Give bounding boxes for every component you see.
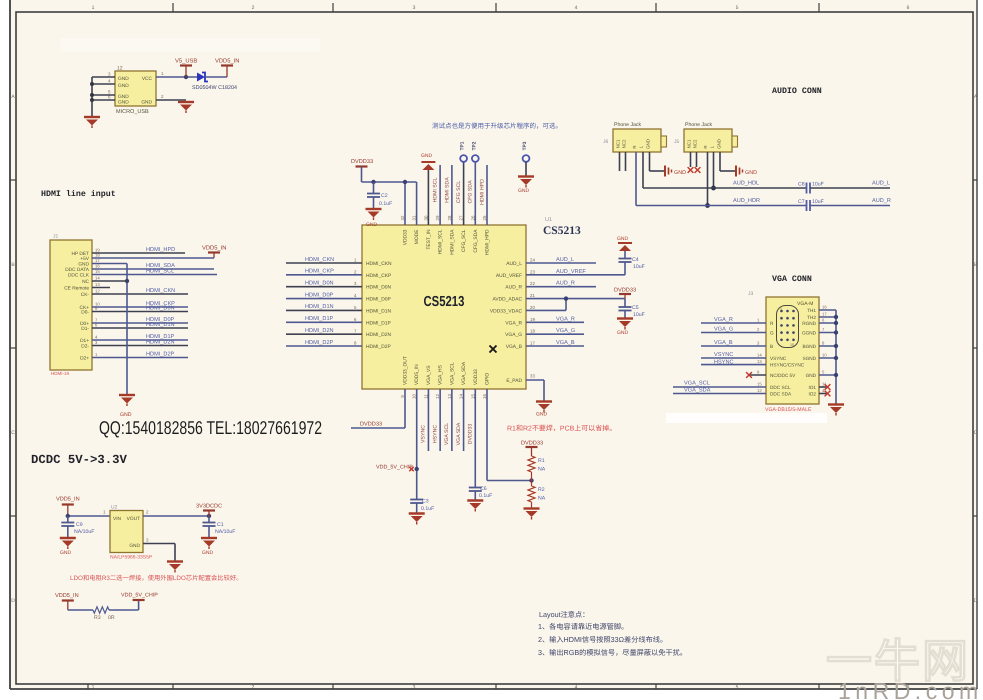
svg-text:J1: J1	[53, 234, 59, 240]
svg-text:GND: GND	[717, 139, 722, 149]
svg-text:15: 15	[790, 343, 794, 347]
wire net VGA_SDA	[673, 388, 766, 394]
svg-text:GPIO: GPIO	[484, 373, 490, 385]
text note LDO	[70, 574, 242, 582]
svg-text:CFG_SCL: CFG_SCL	[461, 229, 467, 252]
svg-text:D1+: D1+	[80, 338, 89, 344]
svg-text:VDD33: VDD33	[473, 369, 479, 385]
wire net HDMI_D0N to pin 3	[286, 281, 362, 287]
wire net HDMI_D1P to pin 6	[286, 316, 362, 322]
svg-text:19: 19	[530, 317, 535, 322]
ground	[409, 514, 425, 525]
svg-text:GND: GND	[617, 236, 629, 242]
svg-text:U2: U2	[111, 505, 118, 511]
svg-text:DVDD33: DVDD33	[467, 424, 473, 445]
svg-text:GND: GND	[141, 100, 152, 106]
wire DVDD33 rail to pins 32,31	[362, 167, 417, 226]
power port 3V3DCDC	[196, 504, 222, 517]
svg-text:VGA_B: VGA_B	[714, 340, 733, 346]
wire net VGA SDA pin 14	[456, 389, 464, 451]
svg-text:HSYNC: HSYNC	[432, 425, 438, 443]
svg-text:DVDD33: DVDD33	[351, 159, 373, 165]
svg-text:G: G	[770, 331, 774, 336]
svg-text:GND: GND	[536, 412, 548, 418]
svg-text:GND: GND	[366, 222, 378, 228]
svg-text:C7: C7	[798, 199, 805, 205]
test point TP3	[518, 141, 534, 194]
svg-text:HDMI_CKN: HDMI_CKN	[146, 288, 175, 294]
capacitor C2 0.1uF	[367, 182, 392, 209]
svg-text:HDMI HPD: HDMI HPD	[479, 179, 485, 205]
connector J6 Phone Jack	[603, 122, 667, 152]
wire net VGA_B	[526, 340, 584, 346]
wire net HSYNC	[701, 359, 766, 365]
red X on NC pin 9	[746, 372, 766, 378]
svg-text:2、输入HDMI信号按照33Ω差分线布线。: 2、输入HDMI信号按照33Ω差分线布线。	[538, 635, 667, 644]
svg-text:AUD_VREF: AUD_VREF	[556, 269, 586, 275]
svg-text:NA/LP5966-33S5P: NA/LP5966-33S5P	[110, 555, 153, 561]
text QQ TEL contact	[99, 418, 322, 439]
svg-text:VDD5_IN: VDD5_IN	[56, 497, 80, 503]
svg-text:C3: C3	[422, 499, 429, 505]
wire GPIO pin 16 to divider	[487, 389, 534, 483]
wire diode to VDD5_IN	[205, 76, 227, 78]
svg-text:D1-: D1-	[81, 326, 89, 332]
text note R1 R2	[507, 425, 616, 433]
wire net AUD_L	[810, 181, 890, 189]
wire net VSYNC pin 11	[421, 389, 429, 451]
svg-text:HDMI_D0N: HDMI_D0N	[366, 285, 391, 291]
svg-text:HDMI_D1P: HDMI_D1P	[305, 316, 334, 322]
wire net VSYNC	[701, 352, 766, 358]
power port VDD_5V_CHIP	[121, 593, 158, 601]
wire net VGA_R	[526, 316, 584, 322]
svg-text:17: 17	[822, 312, 827, 317]
svg-text:HDMI_HPD: HDMI_HPD	[484, 229, 490, 255]
svg-text:AUDIO CONN: AUDIO CONN	[772, 87, 822, 96]
svg-text:HDMI_D1N: HDMI_D1N	[366, 308, 391, 314]
svg-text:DDC DATA: DDC DATA	[65, 267, 90, 273]
wire micro-usb GND pin 2	[156, 94, 186, 100]
svg-text:AUD_L: AUD_L	[872, 181, 890, 187]
svg-text:18: 18	[530, 329, 535, 334]
label U1 CS5213	[543, 217, 581, 237]
wire jack J6 NC stubs	[620, 152, 626, 171]
svg-text:+5V: +5V	[80, 256, 89, 262]
power port VDD5_IN	[202, 246, 226, 259]
capacitor C9 NA/10uF	[61, 516, 94, 538]
resistor R3 0R	[93, 607, 115, 621]
svg-text:5: 5	[736, 685, 739, 691]
svg-text:VDD5_IN: VDD5_IN	[55, 593, 79, 599]
svg-text:HDMI-19: HDMI-19	[51, 371, 69, 376]
power port DVDD33	[351, 159, 373, 167]
title VGA CONN	[772, 275, 812, 284]
svg-text:AUD_L: AUD_L	[506, 261, 522, 267]
svg-text:J6: J6	[603, 139, 609, 145]
svg-text:VGA SDA: VGA SDA	[456, 422, 462, 445]
svg-text:NA: NA	[538, 467, 546, 473]
ground	[366, 209, 382, 228]
svg-text:GND: GND	[118, 100, 129, 106]
svg-text:HDMI_D1N: HDMI_D1N	[305, 304, 334, 310]
svg-text:RGND: RGND	[802, 321, 816, 326]
regulator U2 LDO	[110, 505, 153, 561]
ground	[524, 509, 540, 520]
svg-text:VDD5_IN: VDD5_IN	[414, 364, 420, 385]
wire net HDMI_CKP to pin 2	[286, 269, 362, 275]
svg-text:LDO和电阻R3二选一焊接，使用外围LDO芯片配置会比较好。: LDO和电阻R3二选一焊接，使用外围LDO芯片配置会比较好。	[70, 574, 242, 582]
svg-text:VGA-M: VGA-M	[797, 301, 813, 307]
svg-text:Layout注意点：: Layout注意点：	[539, 610, 589, 619]
svg-text:CS5213: CS5213	[543, 225, 581, 237]
title DCDC 5V to 3.3V	[31, 453, 128, 467]
svg-text:0.1uF: 0.1uF	[379, 201, 392, 207]
svg-text:HDMI line input: HDMI line input	[41, 189, 116, 199]
svg-text:GND: GND	[129, 543, 140, 549]
svg-text:AUD_R: AUD_R	[556, 281, 575, 287]
svg-text:VOUT: VOUT	[127, 516, 140, 522]
svg-text:HDMI_CKP: HDMI_CKP	[366, 273, 391, 279]
wire VDD33 pin 15 to C6	[467, 389, 475, 487]
svg-text:17: 17	[530, 340, 535, 345]
svg-text:AUD_HDL: AUD_HDL	[733, 181, 759, 187]
svg-text:D2+: D2+	[80, 356, 89, 362]
wire jack J5 GND	[720, 152, 735, 171]
svg-text:C1: C1	[217, 522, 224, 528]
op-amp U1 CS5213 converter IC	[354, 215, 535, 399]
svg-text:HDMI_HPD: HDMI_HPD	[146, 247, 175, 253]
wire net HSYNC pin 12	[432, 389, 440, 451]
wire net HDMI_CKN to pin 1	[286, 257, 362, 263]
svg-text:3、输出RGB的模拟信号，尽量屏蔽以免干扰。: 3、输出RGB的模拟信号，尽量屏蔽以免干扰。	[538, 648, 687, 657]
svg-text:HDMI_D2P: HDMI_D2P	[146, 352, 175, 358]
wire jack J5 R	[705, 152, 710, 208]
svg-text:13: 13	[757, 359, 762, 364]
svg-text:NA/10uF: NA/10uF	[74, 529, 94, 535]
wire CE Remote stub	[92, 287, 110, 289]
svg-text:2: 2	[252, 685, 255, 691]
svg-text:10uF: 10uF	[812, 199, 824, 205]
wire jack J5 L	[711, 152, 716, 190]
wire R3 to VDD_5V_CHIP	[109, 600, 139, 610]
power port VDD5_IN	[56, 497, 80, 517]
svg-text:VCC: VCC	[142, 76, 153, 82]
svg-text:14: 14	[757, 353, 762, 358]
svg-text:VGA_SCL: VGA_SCL	[449, 362, 455, 385]
svg-text:C4: C4	[632, 257, 639, 263]
svg-text:3V3DCDC: 3V3DCDC	[196, 504, 222, 510]
wire net HDMI_D0P	[92, 317, 188, 323]
svg-text:HDMI_SCL: HDMI_SCL	[438, 229, 444, 254]
svg-text:GND: GND	[421, 153, 433, 159]
svg-text:B: B	[770, 344, 773, 349]
svg-text:VDD33: VDD33	[403, 229, 409, 245]
svg-text:HDMI_D0P: HDMI_D0P	[366, 297, 391, 303]
svg-text:R2: R2	[538, 487, 545, 493]
svg-text:TH1: TH1	[807, 308, 816, 313]
svg-text:10uF: 10uF	[633, 312, 645, 318]
svg-text:1nRD.com: 1nRD.com	[838, 678, 983, 700]
svg-text:GND: GND	[118, 94, 129, 100]
svg-text:VSYNC: VSYNC	[770, 356, 787, 361]
svg-text:10uF: 10uF	[812, 182, 824, 188]
svg-text:D2-: D2-	[81, 344, 89, 350]
svg-text:VSYNC: VSYNC	[714, 352, 733, 358]
svg-text:24: 24	[530, 258, 535, 263]
svg-text:R1和R2不要焊，PCB上可以省掉。: R1和R2不要焊，PCB上可以省掉。	[507, 425, 616, 433]
connector J7 MICRO_USB	[115, 66, 156, 116]
red X marks on J5 NC pins	[688, 152, 701, 173]
wire net VGA_SCL	[673, 381, 766, 388]
svg-text:NC1: NC1	[687, 139, 692, 148]
wire net HDMI_D0P to pin 4	[286, 292, 362, 298]
svg-text:VGA-DB15/S-MALE: VGA-DB15/S-MALE	[765, 407, 812, 413]
svg-text:HDMI_D2N: HDMI_D2N	[366, 332, 391, 338]
svg-text:VGA_R: VGA_R	[556, 316, 575, 322]
svg-text:SGND: SGND	[802, 356, 816, 361]
svg-text:R1: R1	[538, 458, 545, 464]
svg-text:VDD33_OUT: VDD33_OUT	[403, 356, 409, 385]
svg-text:HDMI_CKP: HDMI_CKP	[305, 269, 334, 275]
wire net HDMI_D2N	[92, 340, 188, 346]
svg-text:VGA_SDA: VGA_SDA	[684, 388, 711, 394]
svg-text:22: 22	[530, 281, 535, 286]
svg-text:HDMI_D0P: HDMI_D0P	[305, 292, 334, 298]
svg-text:VGA_G: VGA_G	[556, 328, 575, 334]
capacitor C7 10uF	[798, 199, 824, 211]
wire net AUD_R	[810, 198, 891, 206]
svg-text:16: 16	[822, 305, 827, 310]
svg-text:R3: R3	[94, 615, 101, 621]
svg-text:TP1: TP1	[460, 141, 466, 150]
svg-text:21: 21	[530, 293, 535, 298]
svg-text:HDMI_D0N: HDMI_D0N	[146, 306, 175, 312]
svg-text:VGA_R: VGA_R	[505, 320, 522, 326]
svg-text:R: R	[703, 145, 708, 148]
svg-text:E_PAD: E_PAD	[506, 378, 522, 384]
svg-text:R: R	[632, 145, 637, 148]
wire +5V to VDD5_IN	[92, 257, 214, 259]
svg-text:D: D	[11, 598, 15, 604]
wire net AUD_L pin 24	[526, 257, 596, 263]
ground	[60, 538, 76, 556]
svg-text:HDMI_D1N: HDMI_D1N	[146, 322, 175, 328]
svg-text:Phone Jack: Phone Jack	[685, 122, 713, 128]
svg-text:4: 4	[575, 5, 578, 11]
svg-text:GND: GND	[78, 262, 89, 268]
capacitor C8 10uF	[798, 182, 824, 194]
svg-text:DVDD33: DVDD33	[521, 441, 543, 447]
wire jack J6 L to AUD_HDL	[642, 152, 644, 188]
svg-text:QQ:1540182856 TEL:18027661972: QQ:1540182856 TEL:18027661972	[99, 418, 322, 439]
wire net VGA_G	[526, 328, 584, 334]
wire VCC out	[156, 71, 197, 79]
ground	[178, 102, 194, 113]
svg-text:5: 5	[736, 5, 739, 11]
svg-text:AUD_L: AUD_L	[556, 257, 574, 263]
svg-text:VDD_5V_CHIP: VDD_5V_CHIP	[121, 593, 158, 599]
svg-text:HDMI_D2N: HDMI_D2N	[146, 340, 175, 346]
svg-text:MICRO_USB: MICRO_USB	[116, 109, 149, 115]
svg-text:Phone Jack: Phone Jack	[614, 122, 642, 128]
white band artifact	[60, 38, 320, 52]
svg-text:HDMI SCL: HDMI SCL	[433, 177, 439, 202]
title HDMI line input	[41, 189, 116, 199]
wire NC pin14	[92, 280, 127, 282]
wire net HDMI_CKP	[92, 301, 188, 307]
wire net VGA_G	[701, 326, 766, 332]
svg-text:C5: C5	[632, 305, 639, 311]
wire jack J6 GND	[650, 152, 665, 171]
capacitor C3 0.1uF	[410, 499, 434, 514]
wire net HDMI_SCL	[92, 269, 217, 275]
svg-text:HDMI_D2N: HDMI_D2N	[305, 328, 334, 334]
svg-text:C9: C9	[76, 522, 83, 528]
svg-text:DDC CLK: DDC CLK	[68, 273, 90, 279]
svg-text:CFG SCL: CFG SCL	[456, 181, 462, 204]
svg-text:HSYNC/CSYNC: HSYNC/CSYNC	[770, 363, 805, 368]
svg-text:VGA CONN: VGA CONN	[772, 275, 812, 284]
wire micro-usb gnd pins to vertical bus	[90, 72, 115, 118]
svg-text:SD0504W C18204: SD0504W C18204	[192, 85, 237, 91]
wire net AUD_HDL	[643, 181, 807, 189]
test point TP1 on CFG_SCL pin 27	[456, 141, 467, 225]
ground	[617, 319, 633, 337]
svg-text:VGA_B: VGA_B	[506, 344, 522, 350]
power port VDD5_IN	[215, 59, 239, 78]
svg-text:VIN: VIN	[113, 516, 122, 522]
svg-text:测试点也是方便用于升级芯片程序的，可选。: 测试点也是方便用于升级芯片程序的，可选。	[432, 122, 562, 130]
svg-text:NA/10uF: NA/10uF	[215, 529, 235, 535]
svg-text:2: 2	[252, 5, 255, 11]
svg-text:VGA_HS: VGA_HS	[438, 364, 444, 385]
svg-text:J3: J3	[748, 291, 754, 297]
svg-text:GND: GND	[118, 76, 129, 82]
svg-text:C8: C8	[798, 182, 805, 188]
ground	[167, 562, 183, 573]
svg-text:NC2: NC2	[693, 139, 698, 148]
svg-text:10: 10	[822, 353, 827, 358]
text layout notes	[538, 610, 687, 657]
svg-text:0.1uF: 0.1uF	[479, 493, 492, 499]
svg-text:IO2: IO2	[808, 392, 816, 397]
wire net AUD_R pin 22	[526, 281, 596, 287]
svg-text:1: 1	[92, 685, 95, 691]
svg-text:GND: GND	[518, 188, 530, 194]
capacitor C1 NA/10uF	[203, 516, 236, 538]
wire U2 GND to ground	[143, 538, 175, 562]
wire net HDMI_D2P	[92, 352, 188, 358]
svg-text:20: 20	[530, 305, 535, 310]
ground	[119, 395, 135, 418]
red X on IO1 IO2	[819, 384, 830, 396]
diode D1 SD0504W C18204	[192, 73, 237, 92]
watermark 1nRD.com	[838, 678, 983, 700]
text note test points	[432, 122, 562, 130]
svg-text:VSYNC: VSYNC	[421, 425, 427, 443]
capacitor C5 10uF	[619, 299, 645, 318]
resistor R1 NA	[528, 456, 546, 481]
capacitor C6 0.1uF	[469, 486, 492, 500]
svg-text:VGA_B: VGA_B	[556, 340, 575, 346]
svg-text:6: 6	[907, 5, 910, 11]
wire HDMI_SCL pin 29	[433, 165, 441, 225]
watermark yiniuwang	[826, 635, 970, 687]
svg-text:1: 1	[92, 5, 95, 11]
wire net HDMI_SDA	[92, 263, 214, 269]
svg-text:HDMI_SDA: HDMI_SDA	[449, 229, 455, 255]
title AUDIO CONN	[772, 87, 822, 96]
wire VDD5_IN to U2 VIN	[66, 510, 110, 519]
svg-text:AVDD_ADAC: AVDD_ADAC	[492, 297, 522, 303]
ground	[84, 117, 100, 128]
wire net HDMI_HPD	[92, 247, 185, 253]
svg-text:TP2: TP2	[471, 141, 477, 150]
wire net AUD_HDR	[636, 198, 807, 206]
svg-text:MODE: MODE	[414, 229, 420, 244]
ground port GND	[736, 166, 757, 177]
svg-text:C: C	[974, 430, 978, 436]
svg-text:VGA_VS: VGA_VS	[426, 365, 432, 385]
wire net AUD_VREF pin 23	[526, 262, 625, 275]
svg-text:CK-: CK-	[81, 292, 90, 298]
svg-text:0.1uF: 0.1uF	[421, 506, 434, 512]
power port DVDD33 for divider	[521, 441, 543, 457]
wire VGA ground rail	[819, 310, 838, 404]
svg-text:VGA_SCL: VGA_SCL	[684, 381, 710, 387]
wire HDMI_SDA pin 28	[444, 165, 452, 225]
svg-text:IO1: IO1	[808, 385, 816, 390]
wire U2 VOUT	[143, 510, 211, 519]
svg-text:13: 13	[95, 282, 100, 287]
svg-text:GND: GND	[60, 550, 72, 556]
connector J5 Phone Jack	[674, 122, 738, 152]
svg-text:12: 12	[117, 66, 123, 72]
wire net VGA_B	[701, 340, 766, 346]
svg-text:3: 3	[413, 5, 416, 11]
svg-text:VGA_R: VGA_R	[714, 317, 733, 323]
svg-text:4: 4	[575, 685, 578, 691]
svg-text:BGND: BGND	[802, 344, 816, 349]
ground	[201, 538, 217, 556]
svg-text:3: 3	[413, 685, 416, 691]
svg-text:GND: GND	[617, 330, 629, 336]
svg-text:10uF: 10uF	[633, 264, 645, 270]
wire net HDMI_CKN	[92, 288, 188, 294]
svg-text:CFG SDA: CFG SDA	[468, 180, 474, 204]
svg-text:VDD33_VDAC: VDD33_VDAC	[490, 308, 523, 314]
wire net HDMI_D2N to pin 7	[286, 328, 362, 334]
ground	[467, 501, 483, 512]
svg-text:DDC SCL: DDC SCL	[770, 385, 791, 390]
svg-text:VGA SCL: VGA SCL	[444, 423, 450, 445]
svg-text:D: D	[974, 598, 978, 604]
svg-text:GND: GND	[118, 83, 129, 89]
svg-text:12: 12	[95, 289, 100, 294]
svg-text:U1: U1	[545, 217, 552, 223]
svg-text:VDD_5V_CHIP: VDD_5V_CHIP	[376, 465, 413, 471]
svg-text:NC1: NC1	[616, 139, 621, 148]
wire to resistor R3	[68, 609, 93, 611]
resistor R2 NA	[528, 481, 546, 509]
svg-text:VGA_G: VGA_G	[505, 332, 522, 338]
svg-text:HDMI SDA: HDMI SDA	[444, 177, 450, 203]
power port V5_USB	[175, 58, 197, 78]
svg-text:CS5213: CS5213	[424, 294, 465, 310]
svg-text:33: 33	[530, 374, 535, 379]
wire E_PAD pin 33 to ground	[526, 380, 544, 401]
